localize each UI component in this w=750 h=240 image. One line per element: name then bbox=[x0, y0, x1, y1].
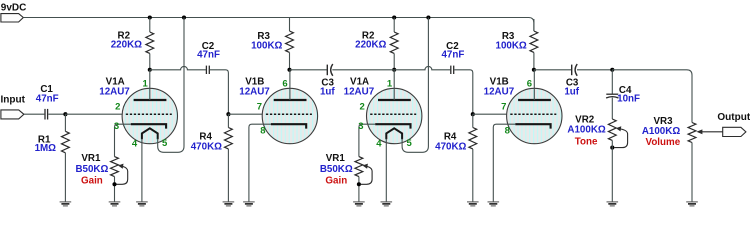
wire VR3 to ground bbox=[691, 143, 693, 202]
pin 7 label bbox=[501, 101, 506, 112]
pin 3 label bbox=[358, 121, 363, 132]
label VR2 bbox=[575, 114, 595, 125]
wire VR1 to bottom node bbox=[358, 177, 360, 202]
wire C3 to stage2 plate node bbox=[332, 69, 394, 71]
svg-text:1uf: 1uf bbox=[320, 86, 335, 97]
wire C3 to tone node bbox=[577, 69, 612, 71]
node plate V1B bbox=[532, 68, 536, 72]
node plate V1B bbox=[287, 68, 291, 72]
cathode lead wire to ground V1B bbox=[249, 124, 271, 201]
wire grid node to V1B grid bbox=[473, 113, 508, 115]
pin 8 label bbox=[260, 126, 265, 137]
pin 8 label bbox=[505, 126, 510, 137]
svg-text:3: 3 bbox=[114, 121, 119, 132]
resistor R2 bbox=[146, 32, 154, 53]
label VR2 value bbox=[567, 125, 605, 136]
svg-text:Tone: Tone bbox=[575, 137, 598, 148]
heater pin 5 wire to 9v rail V1A bbox=[158, 18, 184, 153]
Input tag bbox=[1, 110, 24, 119]
ground (VR3) bbox=[686, 202, 698, 206]
label R3 value bbox=[251, 40, 282, 51]
potentiometer VR1 bbox=[355, 157, 363, 177]
tube circle envelope V1A bbox=[367, 88, 422, 143]
svg-text:7: 7 bbox=[501, 101, 506, 112]
pin 3 label bbox=[114, 121, 119, 132]
Output tag bbox=[723, 127, 746, 136]
gain stage 1 (V1A+V1B) bbox=[75, 15, 335, 205]
svg-text:1uf: 1uf bbox=[564, 86, 579, 97]
wire plate node to C2 (hop over heater wire) bbox=[150, 66, 206, 69]
cathode bar V1B bbox=[271, 124, 306, 128]
label C4 bbox=[619, 85, 632, 96]
svg-text:12AU7: 12AU7 bbox=[99, 86, 130, 97]
ground (heater pin 4) V1A bbox=[381, 202, 393, 206]
resistor R4 bbox=[224, 128, 232, 149]
svg-text:100KΩ: 100KΩ bbox=[251, 40, 282, 51]
label VR1 value bbox=[75, 164, 108, 175]
heater filament V1A bbox=[386, 128, 402, 139]
plate (anode) bar V1A bbox=[134, 99, 167, 101]
svg-text:4: 4 bbox=[132, 138, 138, 149]
wire grid node to V1B grid bbox=[228, 113, 263, 115]
wire R2 to plate node bbox=[149, 54, 151, 70]
label V1A type bbox=[99, 86, 130, 97]
svg-text:10nF: 10nF bbox=[617, 93, 640, 104]
label V1B bbox=[245, 76, 264, 87]
cathode bar V1A bbox=[375, 124, 410, 128]
svg-text:1MΩ: 1MΩ bbox=[35, 143, 57, 154]
svg-text:8: 8 bbox=[260, 126, 265, 137]
label R4 value bbox=[435, 142, 466, 153]
wire plate node to C3 bbox=[534, 69, 571, 71]
capacitor C2 bbox=[451, 66, 454, 74]
svg-text:47nF: 47nF bbox=[36, 93, 59, 104]
svg-text:220KΩ: 220KΩ bbox=[111, 39, 142, 50]
svg-text:2: 2 bbox=[115, 101, 120, 112]
pin 1 label bbox=[142, 79, 148, 90]
grid (dashed) V1B bbox=[266, 113, 312, 115]
svg-text:4: 4 bbox=[376, 138, 382, 149]
node tone top bbox=[610, 68, 614, 72]
svg-text:5: 5 bbox=[406, 138, 412, 149]
pin 6 label bbox=[282, 79, 287, 90]
wire plate node to C2 (hop over heater wire) bbox=[394, 66, 450, 69]
tube circle envelope V1B bbox=[262, 88, 317, 143]
ground (cathode) V1B bbox=[243, 202, 255, 206]
capacitor C3 curved plate bbox=[331, 64, 333, 76]
label R1 value bbox=[35, 143, 57, 154]
svg-text:100KΩ: 100KΩ bbox=[496, 40, 527, 51]
node plate V1A bbox=[392, 68, 396, 72]
label R2 bbox=[362, 30, 375, 41]
VR3 wiper arrow bbox=[696, 129, 722, 134]
capacitor C1 bbox=[45, 109, 48, 120]
capacitor C3 straight plate bbox=[571, 65, 573, 76]
ground (VR1) bbox=[353, 202, 365, 206]
heater pin 4 wire to ground V1A bbox=[385, 139, 387, 202]
label R3 bbox=[502, 31, 515, 42]
label R1 bbox=[38, 134, 51, 145]
svg-text:1: 1 bbox=[142, 79, 148, 90]
capacitor C4 curved plate bbox=[606, 97, 618, 98]
svg-text:Gain: Gain bbox=[81, 175, 103, 186]
svg-text:Volume: Volume bbox=[646, 137, 681, 148]
cathode lead wire to ground V1B bbox=[493, 124, 515, 201]
wire R4 to ground bbox=[472, 149, 474, 202]
label VR1 bbox=[326, 153, 346, 164]
svg-text:47nF: 47nF bbox=[197, 50, 220, 61]
wire R2 to plate node bbox=[393, 54, 395, 70]
svg-text:470KΩ: 470KΩ bbox=[191, 142, 222, 153]
ground (heater pin 4) V1A bbox=[136, 202, 148, 206]
label R4 bbox=[199, 131, 212, 142]
grid (dashed) V1B bbox=[510, 113, 556, 115]
capacitor C3 curved plate bbox=[575, 64, 577, 76]
label C3 value bbox=[320, 86, 335, 97]
junction on 9v rail at R2 bbox=[392, 15, 396, 19]
label R4 bbox=[444, 131, 457, 142]
label V1A bbox=[350, 76, 369, 87]
heater filament V1A bbox=[142, 128, 158, 139]
node VR1 bottom bbox=[357, 182, 361, 186]
label VR1 function bbox=[81, 175, 103, 186]
pin 5 label bbox=[162, 138, 168, 149]
pin 2 label bbox=[115, 101, 120, 112]
node grid V1B bbox=[471, 112, 475, 116]
ground (VR2) bbox=[607, 202, 619, 206]
plate lead wire V1B bbox=[289, 70, 291, 100]
plate (anode) bar V1B bbox=[274, 99, 307, 101]
svg-text:3: 3 bbox=[358, 121, 363, 132]
plate lead wire V1B bbox=[533, 70, 535, 100]
label R3 value bbox=[496, 40, 527, 51]
label R2 value bbox=[111, 39, 142, 50]
plate (anode) bar V1A bbox=[378, 99, 411, 101]
wire tone node to VR3 bbox=[612, 70, 692, 123]
svg-text:Gain: Gain bbox=[325, 175, 347, 186]
label C1 value bbox=[36, 93, 59, 104]
wire rail to R2 bbox=[149, 18, 151, 33]
ground (R4) bbox=[223, 202, 235, 206]
node grid V1B bbox=[226, 112, 230, 116]
wire input to C1 bbox=[24, 113, 45, 115]
wire tone node to C4 bbox=[611, 70, 613, 94]
label 9vDC bbox=[1, 2, 27, 13]
label C4 value bbox=[617, 93, 640, 104]
svg-text:B50KΩ: B50KΩ bbox=[75, 164, 108, 175]
wire VR2 to ground bbox=[611, 141, 613, 202]
svg-text:8: 8 bbox=[505, 126, 510, 137]
label Output bbox=[717, 112, 750, 123]
resistor R2 bbox=[390, 32, 398, 53]
wire rail to R2 bbox=[393, 18, 395, 33]
plate (anode) bar V1B bbox=[518, 99, 551, 101]
svg-text:47nF: 47nF bbox=[441, 50, 464, 61]
gain stage 2 (V1A+V1B, copy) bbox=[320, 15, 580, 205]
label V1A bbox=[106, 76, 125, 87]
svg-text:5: 5 bbox=[162, 138, 168, 149]
wire C2 to grid node bbox=[210, 70, 229, 114]
label C3 value bbox=[564, 86, 579, 97]
wire R4 to ground bbox=[227, 149, 229, 202]
VR1 wiper arrow bbox=[361, 164, 372, 185]
ground (VR1) bbox=[109, 202, 121, 206]
VR1 wiper arrow bbox=[117, 164, 128, 185]
label R2 bbox=[118, 30, 131, 41]
wire grid node to V1A grid bbox=[65, 113, 126, 115]
svg-text:A100KΩ: A100KΩ bbox=[567, 125, 605, 136]
svg-text:12AU7: 12AU7 bbox=[239, 86, 270, 97]
wire C2 to grid node bbox=[454, 70, 473, 114]
label VR3 value bbox=[642, 126, 680, 137]
label C2 value bbox=[441, 50, 464, 61]
label VR3 bbox=[653, 116, 673, 127]
label VR3 function bbox=[646, 137, 681, 148]
svg-text:7: 7 bbox=[257, 101, 262, 112]
resistor R3 bbox=[286, 31, 294, 52]
label C2 bbox=[202, 41, 215, 52]
wire plate node to C3 bbox=[290, 69, 327, 71]
label R4 value bbox=[191, 142, 222, 153]
grid (dashed) V1A bbox=[370, 113, 416, 115]
plate lead wire V1A bbox=[149, 70, 151, 100]
wire grid node to R4 bbox=[227, 114, 229, 127]
label R2 value bbox=[355, 39, 386, 50]
pin 5 label bbox=[406, 138, 412, 149]
capacitor C3 straight plate bbox=[326, 65, 328, 76]
pin 2 label bbox=[360, 101, 365, 112]
heater pin 4 wire to ground V1A bbox=[141, 139, 143, 202]
potentiometer VR1 bbox=[111, 157, 119, 177]
label VR1 value bbox=[320, 164, 353, 175]
svg-text:6: 6 bbox=[527, 79, 532, 90]
label R3 bbox=[257, 31, 270, 42]
wire R3 to plate node bbox=[289, 53, 291, 70]
ground (R1) bbox=[60, 202, 72, 206]
svg-text:A100KΩ: A100KΩ bbox=[642, 126, 680, 137]
label C1 bbox=[40, 84, 53, 95]
wire C4 to VR2 bbox=[611, 98, 613, 119]
junction on 9v rail at heater feed bbox=[426, 15, 430, 19]
label Input bbox=[1, 94, 26, 105]
label VR2 function bbox=[575, 137, 598, 148]
svg-text:VR1: VR1 bbox=[326, 153, 346, 164]
resistor R1 bbox=[62, 131, 70, 152]
wire rail to R3 bbox=[289, 19, 291, 31]
svg-text:12AU7: 12AU7 bbox=[344, 86, 375, 97]
cathode lead wire V1A bbox=[359, 124, 375, 156]
label VR1 bbox=[81, 153, 101, 164]
svg-text:Input: Input bbox=[1, 94, 26, 105]
svg-text:VR1: VR1 bbox=[81, 153, 101, 164]
label V1B bbox=[490, 76, 509, 87]
pin 4 label bbox=[376, 138, 382, 149]
potentiometer VR2 bbox=[608, 119, 616, 140]
label C2 value bbox=[197, 50, 220, 61]
cathode bar V1B bbox=[515, 124, 550, 128]
label V1B type bbox=[484, 86, 515, 97]
junction on 9v rail at heater feed bbox=[182, 15, 186, 19]
label C2 bbox=[446, 41, 459, 52]
label C3 bbox=[566, 78, 579, 89]
tube circle envelope V1B bbox=[507, 88, 562, 143]
label V1A type bbox=[344, 86, 375, 97]
9vDC supply tag bbox=[1, 14, 23, 22]
ground (R4) bbox=[467, 202, 479, 206]
svg-text:Output: Output bbox=[717, 112, 750, 123]
svg-text:1: 1 bbox=[387, 79, 393, 90]
cathode lead wire V1A bbox=[115, 124, 131, 156]
svg-text:220KΩ: 220KΩ bbox=[355, 39, 386, 50]
capacitor C2 bbox=[206, 66, 209, 74]
wire rail to R3 bbox=[533, 19, 535, 31]
wire R1 to ground bbox=[64, 153, 66, 202]
capacitor C4 top plate bbox=[606, 93, 618, 95]
svg-text:12AU7: 12AU7 bbox=[484, 86, 515, 97]
wire rail to R3 stage1 stub bbox=[289, 17, 291, 20]
pin 1 label bbox=[387, 79, 393, 90]
9v rail wire bbox=[23, 18, 534, 32]
svg-text:9vDC: 9vDC bbox=[1, 2, 27, 13]
potentiometer VR3 bbox=[688, 123, 696, 143]
svg-text:B50KΩ: B50KΩ bbox=[320, 164, 353, 175]
heater pin 5 wire to 9v rail V1A bbox=[402, 18, 428, 153]
pin 7 label bbox=[257, 101, 262, 112]
pin 6 label bbox=[527, 79, 532, 90]
svg-text:470KΩ: 470KΩ bbox=[435, 142, 466, 153]
plate lead wire V1A bbox=[393, 70, 395, 100]
cathode bar V1A bbox=[131, 124, 166, 128]
label V1B type bbox=[239, 86, 270, 97]
grid (dashed) V1A bbox=[126, 113, 172, 115]
resistor R3 bbox=[530, 31, 538, 52]
node input grid bbox=[63, 112, 67, 116]
node VR2 bottom bbox=[610, 146, 614, 150]
wire R3 to plate node bbox=[533, 53, 535, 70]
node plate V1A bbox=[148, 68, 152, 72]
ground (cathode) V1B bbox=[488, 202, 500, 206]
tube circle envelope V1A bbox=[122, 88, 177, 143]
wire C1 to grid node bbox=[48, 113, 65, 115]
label VR1 function bbox=[325, 175, 347, 186]
wire grid node to R4 bbox=[472, 114, 474, 127]
VR2 wiper arrow bbox=[614, 126, 627, 147]
pin 4 label bbox=[132, 138, 138, 149]
svg-text:2: 2 bbox=[360, 101, 365, 112]
wire VR1 to bottom node bbox=[114, 177, 116, 202]
svg-text:6: 6 bbox=[282, 79, 287, 90]
label C3 bbox=[321, 78, 334, 89]
node VR1 bottom bbox=[112, 182, 116, 186]
resistor R4 bbox=[469, 128, 477, 149]
wire grid node to R1 bbox=[64, 114, 66, 131]
junction on 9v rail at R2 bbox=[148, 15, 152, 19]
